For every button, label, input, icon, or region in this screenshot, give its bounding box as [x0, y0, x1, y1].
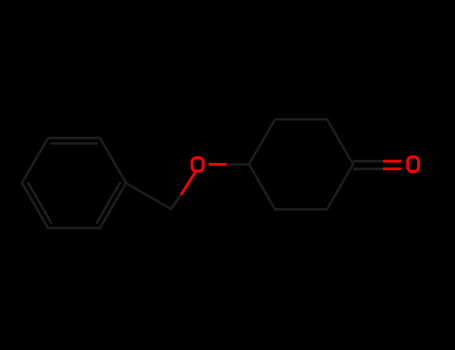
benzylic CH2 bonds — [126, 183, 182, 209]
wire: bond O to ring A (carbon half, dark) — [227, 163, 249, 165]
wire: phenyl edge BR-BL (bottom) — [48, 227, 100, 229]
wire: aromatic inner line lower-right — [97, 183, 120, 223]
wire: bond CH2 to O (carbon half, dark) — [171, 194, 182, 209]
wire: aromatic inner line lower-left — [28, 183, 51, 223]
ketone oxygen O2 (letter O) — [408, 157, 419, 172]
wire: bond O to ring A (oxygen half, red) — [209, 163, 228, 166]
carbonyl C=O double bond, carbon half (dark) — [353, 161, 383, 169]
wire: phenyl edge TR-V1 — [100, 138, 126, 183]
wire: cyclohexane edge A-B — [249, 119, 275, 164]
wire: cyclohexane edge F-A — [249, 164, 275, 209]
carbonyl C=O double bond, oxygen half (red) — [383, 161, 401, 169]
wire: cyclohexane edge D-E — [327, 164, 353, 209]
wire: cyclohexane edge E-F (bottom) — [275, 208, 327, 210]
wire: phenyl edge TL-TR (top) — [48, 137, 100, 139]
wire: phenyl edge BL-L — [22, 183, 48, 228]
wire: cyclohexane edge B-C (top) — [275, 118, 327, 120]
wire: phenyl edge L-TL — [22, 138, 48, 183]
wire: bond phenyl V1 to CH2 — [126, 183, 171, 209]
ether oxygen O1 (letter O) — [192, 158, 203, 172]
cyclohexanone ring — [249, 119, 353, 209]
wire: bond CH2 to O (oxygen half, red) — [182, 171, 197, 194]
wire: phenyl edge V1-BR — [100, 183, 126, 228]
benzyl phenyl ring — [22, 138, 126, 228]
wire: cyclohexane edge C-D — [327, 119, 353, 164]
wire: aromatic inner line top — [51, 142, 97, 144]
